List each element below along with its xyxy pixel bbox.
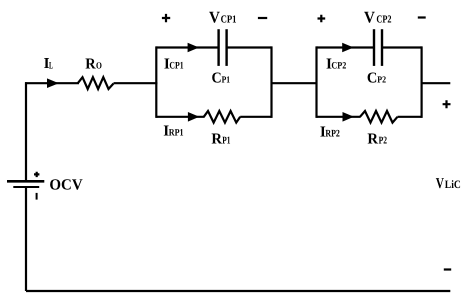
label CP1 xyxy=(212,69,231,86)
resistor RP1 xyxy=(204,111,240,123)
capacitor CP1 right plate xyxy=(225,29,227,66)
svg-text:P1: P1 xyxy=(222,75,231,85)
svg-text:CP2: CP2 xyxy=(376,14,391,26)
svg-text:RP1: RP1 xyxy=(169,128,184,139)
capacitor CP2 right plate xyxy=(381,29,383,66)
wire: bottom return rail xyxy=(26,290,450,292)
label RO xyxy=(85,55,102,72)
label VCP1 xyxy=(209,8,237,27)
wire: RO to RC group 1 xyxy=(114,82,158,84)
svg-text:V: V xyxy=(209,8,220,27)
current arrow IL xyxy=(47,78,59,88)
svg-text:P2: P2 xyxy=(379,136,387,147)
svg-text:CP1: CP1 xyxy=(221,14,237,26)
svg-text:P1: P1 xyxy=(222,136,230,147)
svg-text:V: V xyxy=(436,176,444,192)
label VCP2 xyxy=(364,8,392,27)
svg-text:C: C xyxy=(367,69,377,86)
wire: RC group 1 bottom branch left of resistor xyxy=(156,116,204,118)
label OCV xyxy=(49,176,83,193)
voltage polarity - for VCP2 xyxy=(418,16,426,18)
wire: RC group 1 top branch right of capacitor xyxy=(227,46,272,48)
wire: left rail top segment (node A down to battery +) xyxy=(25,82,27,180)
svg-text:O: O xyxy=(96,61,102,71)
wire: output positive lead xyxy=(422,82,451,84)
svg-text:R: R xyxy=(367,131,379,148)
voltage polarity - for VCP1 xyxy=(258,17,267,19)
capacitor CP2 left plate xyxy=(373,29,375,66)
label CP2 xyxy=(367,69,386,86)
current arrow ICP1 xyxy=(188,43,199,53)
svg-text:P2: P2 xyxy=(377,75,386,85)
battery - polarity mark (vertical tick) xyxy=(36,193,38,200)
svg-text:V: V xyxy=(364,8,375,27)
svg-text:OCV: OCV xyxy=(49,176,83,193)
output - terminal mark xyxy=(444,268,451,270)
output + terminal mark xyxy=(443,100,451,108)
wire: RC group 2 top branch left of capacitor xyxy=(317,46,375,48)
label IL xyxy=(44,55,54,72)
voltage polarity + for VCP2 xyxy=(318,15,326,23)
wire: RC group 1 left vertical xyxy=(155,46,157,118)
battery OCV positive plate xyxy=(7,180,44,183)
svg-text:CP1: CP1 xyxy=(169,60,183,71)
svg-text:L: L xyxy=(49,60,53,71)
label ICP1 xyxy=(164,55,184,72)
wire: RC group 1 right vertical xyxy=(270,46,272,118)
resistor RO xyxy=(78,77,114,89)
wire: RC group 1 to RC group 2 xyxy=(272,82,317,84)
svg-text:CP2: CP2 xyxy=(331,60,346,71)
svg-text:LiC: LiC xyxy=(445,179,461,191)
label ICP2 xyxy=(326,55,346,72)
wire: RC group 2 bottom branch right of resistor xyxy=(398,116,422,118)
label IRP2 xyxy=(320,123,340,140)
wire: main top wire from node A to resistor RO xyxy=(25,82,79,84)
wire: RC group 1 top branch left of capacitor xyxy=(156,46,218,48)
label IRP1 xyxy=(163,123,183,140)
current arrow IRP2 xyxy=(343,112,354,122)
battery OCV negative plate xyxy=(13,186,39,188)
wire: RC group 2 right vertical xyxy=(421,46,423,118)
label RP1 xyxy=(211,131,230,148)
label VLiC xyxy=(436,176,461,192)
capacitor CP1 left plate xyxy=(217,29,219,66)
wire: RC group 1 bottom branch right of resistor xyxy=(240,116,271,118)
wire: left rail bottom segment (battery - to bottom rail) xyxy=(25,188,27,291)
voltage polarity + for VCP1 xyxy=(162,14,170,22)
wire: RC group 2 left vertical xyxy=(315,46,317,118)
label RP2 xyxy=(367,131,387,148)
svg-text:R: R xyxy=(85,55,96,72)
resistor RP2 xyxy=(360,111,398,123)
current arrow ICP2 xyxy=(342,43,353,53)
battery + polarity mark xyxy=(34,172,39,177)
svg-text:RP2: RP2 xyxy=(325,128,340,139)
wire: RC group 2 bottom branch left of resistor xyxy=(317,116,361,118)
wire: RC group 2 top branch right of capacitor xyxy=(382,46,422,48)
current arrow IRP1 xyxy=(188,112,199,122)
svg-text:C: C xyxy=(212,69,222,86)
